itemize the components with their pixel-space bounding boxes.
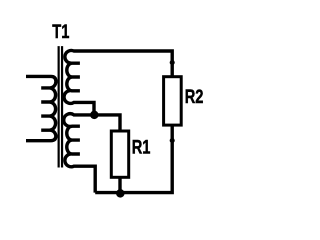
small nub on R2 bottom wire xyxy=(170,138,175,143)
core line right of T1 xyxy=(61,46,63,167)
small nub on R2 top wire xyxy=(170,60,175,65)
junction dot at bottom node xyxy=(116,189,125,198)
secondary upper winding of T1 + top wire to R2 xyxy=(64,50,172,114)
wire R1 bottom stub xyxy=(118,177,121,193)
svg-text:R1: R1 xyxy=(132,136,151,159)
svg-text:T1: T1 xyxy=(52,20,70,43)
core line left of T1 xyxy=(58,46,60,167)
primary winding of T1 (left side) xyxy=(26,76,56,140)
junction dot at center tap node xyxy=(90,111,99,120)
secondary lower winding of T1 + center-tap wire to R1 xyxy=(64,114,120,193)
resistor R2 xyxy=(164,77,182,125)
transformer T1 xyxy=(26,50,172,192)
resistor R1 xyxy=(111,131,128,177)
svg-text:R2: R2 xyxy=(185,85,204,108)
wire from R2 bottom, down and left along bottom to transformer xyxy=(95,125,172,193)
